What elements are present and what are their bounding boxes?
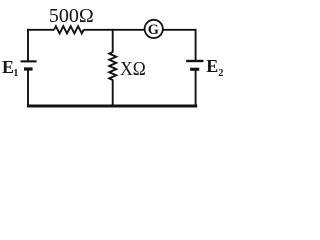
wire left upper (27, 29, 29, 61)
wire left lower (27, 70, 29, 107)
wire middle upper (112, 29, 114, 53)
svg-text:E: E (206, 56, 218, 76)
wire right upper (195, 29, 197, 61)
wire right lower (195, 70, 197, 107)
wire middle lower (112, 80, 114, 107)
galvanometer U1 circle (145, 20, 163, 38)
svg-text:1: 1 (13, 68, 18, 79)
wire top-middle segment (83, 29, 144, 31)
battery E2 short thick plate (190, 68, 199, 71)
svg-text:G: G (148, 22, 159, 38)
svg-text:2: 2 (218, 68, 223, 79)
wire top-left segment (27, 29, 54, 31)
battery E2 long plate (186, 60, 203, 62)
battery E1 long plate (21, 60, 37, 62)
wire bottom (27, 105, 197, 108)
resistor R 500Ω zigzag (54, 26, 84, 33)
wire top-right segment (163, 29, 196, 31)
resistor X zigzag (109, 52, 116, 80)
svg-text:XΩ: XΩ (120, 58, 146, 80)
battery E1 short thick plate (24, 67, 33, 70)
svg-text:500Ω: 500Ω (49, 5, 94, 27)
svg-text:E: E (2, 57, 14, 77)
